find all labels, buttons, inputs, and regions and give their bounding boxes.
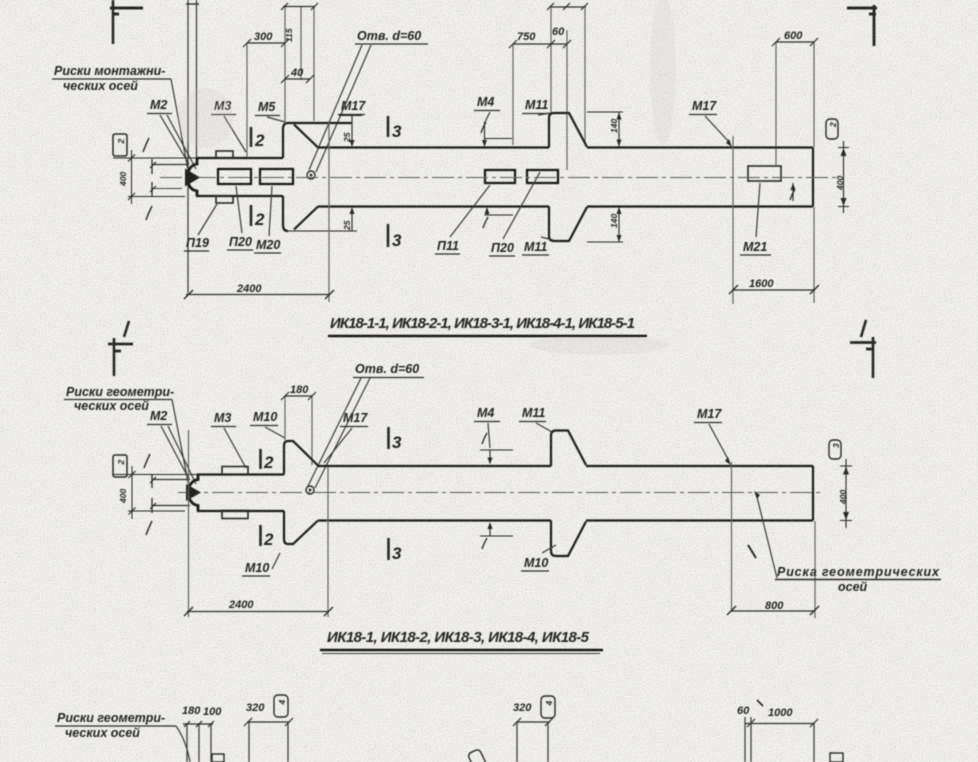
svg-text:Риски геометри-: Риски геометри- — [57, 711, 165, 725]
svg-text:140: 140 — [609, 119, 619, 133]
svg-text:М4: М4 — [477, 95, 494, 109]
svg-text:2: 2 — [263, 530, 274, 549]
svg-text:4: 4 — [277, 700, 287, 706]
svg-text:2: 2 — [116, 460, 126, 466]
svg-text:М4: М4 — [477, 406, 494, 420]
tilted flag mid — [467, 749, 487, 762]
svg-text:Риски геометри-: Риски геометри- — [66, 385, 174, 399]
corner mark bottom-left with digit 1 — [108, 321, 133, 376]
neck plates — [222, 467, 248, 475]
svg-text:М21: М21 — [743, 240, 767, 254]
shaft edges — [318, 146, 549, 148]
smudges — [177, 0, 676, 355]
svg-text:ческих осей: ческих осей — [65, 726, 140, 740]
svg-text:осей: осей — [838, 580, 868, 594]
long extension verticals at tip — [151, 0, 199, 293]
dim 180 — [285, 396, 312, 465]
svg-text:М3: М3 — [214, 411, 231, 425]
right flag — [829, 440, 841, 459]
svg-text:400: 400 — [118, 489, 128, 504]
hole marker — [307, 171, 315, 179]
dim 1600 — [729, 285, 819, 294]
svg-text:60: 60 — [552, 26, 565, 38]
flag cut right — [830, 753, 843, 762]
column outline top drawing — [187, 113, 813, 241]
svg-text:3: 3 — [392, 122, 402, 141]
small flag cut — [212, 754, 224, 762]
dim 800 — [727, 606, 819, 615]
centerline — [178, 492, 820, 494]
outline — [188, 431, 813, 557]
svg-text:М11: М11 — [524, 240, 547, 254]
svg-text:ИК18-1, ИК18-2, ИК18-3, ИК18-4: ИК18-1, ИК18-2, ИК18-3, ИК18-4, ИК18-5 — [327, 629, 590, 646]
svg-text:4: 4 — [544, 701, 554, 707]
svg-text:Риски монтажни-: Риски монтажни- — [54, 64, 165, 78]
svg-text:3: 3 — [831, 443, 841, 448]
corner mark top-right — [847, 5, 877, 46]
neck small plates — [216, 151, 233, 158]
svg-text:М5: М5 — [258, 100, 276, 114]
neck edges — [196, 157, 283, 159]
tip leader arrow — [185, 169, 200, 187]
svg-text:2: 2 — [116, 139, 126, 145]
corbel top bar and slope — [288, 122, 352, 124]
dim 2400 — [184, 290, 334, 299]
svg-text:180: 180 — [182, 705, 201, 717]
svg-text:25: 25 — [342, 132, 352, 143]
top small dim over corbel — [281, 3, 318, 10]
svg-text:М20: М20 — [256, 238, 280, 252]
left end dims — [113, 454, 197, 535]
section mark 3 bottom — [387, 224, 390, 247]
svg-text:Риска геометрических: Риска геометрических — [777, 565, 940, 579]
dim 750 / 60 — [513, 8, 585, 170]
svg-text:600: 600 — [784, 30, 803, 42]
corner mark top-left — [110, 0, 143, 44]
scan noise — [0, 0, 1, 1]
svg-text:115: 115 — [284, 28, 294, 42]
svg-text:ческих осей: ческих осей — [74, 399, 149, 413]
svg-text:Отв. d=60: Отв. d=60 — [357, 29, 421, 43]
right end — [812, 148, 814, 207]
svg-text:Отв. d=60: Отв. d=60 — [355, 362, 419, 376]
svg-text:320: 320 — [513, 702, 532, 714]
svg-text:М17: М17 — [341, 99, 366, 113]
svg-text:140: 140 — [609, 214, 619, 228]
centerline — [160, 177, 838, 179]
svg-text:М17: М17 — [343, 411, 368, 425]
svg-text:40: 40 — [290, 67, 304, 79]
tip cap — [187, 158, 197, 196]
svg-text:ческих осей: ческих осей — [63, 79, 138, 93]
section marks 3 — [387, 427, 390, 449]
svg-text:М3: М3 — [214, 99, 231, 113]
svg-text:3: 3 — [392, 231, 402, 250]
svg-text:М10: М10 — [524, 556, 548, 570]
svg-text:3: 3 — [392, 544, 402, 563]
corbel verticals — [283, 123, 288, 158]
svg-text:1000: 1000 — [768, 707, 793, 719]
svg-text:П11: П11 — [437, 239, 459, 253]
plate right end — [748, 166, 781, 181]
svg-text:М2: М2 — [150, 98, 167, 112]
dim 600 right — [776, 42, 814, 303]
M17 bottom mirror bar — [284, 230, 357, 232]
right height dim — [843, 141, 845, 213]
dim 300 — [243, 39, 289, 47]
svg-text:2: 2 — [254, 131, 265, 150]
svg-text:2: 2 — [828, 122, 838, 128]
svg-text:60: 60 — [737, 705, 750, 717]
svg-text:М10: М10 — [253, 410, 277, 424]
svg-text:М10: М10 — [245, 561, 269, 575]
svg-text:300: 300 — [254, 31, 273, 43]
embedded plates near tip — [218, 169, 251, 184]
svg-text:3: 3 — [392, 433, 402, 452]
svg-text:П19: П19 — [186, 236, 209, 250]
section mark 2 top — [250, 127, 253, 147]
svg-text:750: 750 — [517, 31, 536, 43]
svg-text:1600: 1600 — [749, 278, 774, 290]
ext vline right of corbel — [328, 121, 330, 302]
svg-text:М17: М17 — [692, 99, 717, 113]
dim 2400 — [184, 607, 333, 616]
section mark 2 bottom — [250, 205, 253, 226]
svg-text:М11: М11 — [525, 98, 548, 112]
svg-text:М2: М2 — [150, 409, 167, 423]
ext verticals — [731, 462, 733, 611]
svg-text:М17: М17 — [697, 407, 722, 421]
right height dim — [845, 459, 847, 528]
small 60 dim near right plate — [792, 183, 794, 201]
svg-text:320: 320 — [246, 702, 265, 714]
svg-text:400: 400 — [838, 490, 848, 505]
svg-text:800: 800 — [765, 600, 784, 612]
fin height dims — [587, 111, 623, 113]
dim 40 — [281, 75, 314, 83]
right flag — [826, 119, 838, 139]
left end dims — [113, 138, 196, 220]
tip leader arrow — [186, 484, 201, 501]
svg-text:25: 25 — [342, 220, 352, 231]
extension verticals above head corbel — [247, 7, 314, 157]
fin — [549, 113, 587, 148]
svg-text:2: 2 — [263, 453, 274, 472]
svg-text:100: 100 — [203, 706, 222, 718]
svg-text:400: 400 — [835, 176, 845, 191]
svg-text:2400: 2400 — [228, 599, 254, 611]
svg-text:П20: П20 — [229, 235, 252, 249]
corner mark bottom-right with digit 1 — [850, 320, 876, 378]
section mark 3 top — [387, 116, 390, 137]
svg-text:2400: 2400 — [236, 283, 262, 295]
svg-text:2: 2 — [254, 210, 265, 229]
M4 bottom mirror — [480, 535, 513, 537]
M4 bottom mirror — [485, 214, 514, 216]
svg-text:П20: П20 — [491, 241, 514, 255]
svg-text:180: 180 — [290, 384, 309, 396]
svg-text:400: 400 — [118, 172, 128, 187]
svg-text:М11: М11 — [522, 406, 545, 420]
section marks 2 — [259, 449, 262, 469]
embedded plates mid-span — [485, 170, 515, 183]
svg-text:ИК18-1-1, ИК18-2-1, ИК18-3-1,: ИК18-1-1, ИК18-2-1, ИК18-3-1, ИК18-4-1, … — [330, 315, 635, 332]
